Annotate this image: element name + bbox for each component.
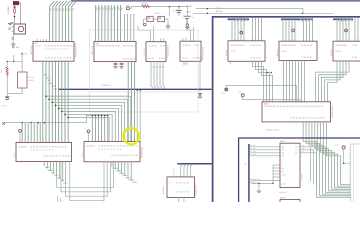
svg-text:RESET A1: RESET A1 [252, 178, 260, 181]
ground loop [5, 94, 9, 100]
svg-text:70: 70 [49, 149, 51, 152]
wire IC9 outputs to bottom edge [58, 196, 104, 202]
IC IC8 (74LS393 counter) [167, 174, 195, 202]
ground IC11 [257, 191, 287, 194]
wire stubs IC9 bottom with net labels [44, 162, 68, 185]
wire fan bus B2 to IC7 top with hop arcs and terminal circle [337, 18, 358, 42]
wire R1 to crystal node [150, 6, 188, 8]
resistor R3 (vertical box) [14, 5, 16, 23]
svg-text:2: 2 [266, 57, 269, 58]
svg-text:10k: 10k [0, 70, 3, 73]
IC IC9 (EPROM 2716) [16, 140, 72, 166]
svg-text:IOW: IOW [54, 174, 58, 177]
label IC6 right [318, 57, 321, 58]
svg-text:Q5: Q5 [302, 144, 304, 147]
terminal circle U1 out b [167, 25, 170, 28]
svg-text:PROZESSOR 1: PROZESSOR 1 [331, 105, 334, 118]
frame module boundary (gray) [90, 30, 199, 112]
svg-text:RESET: RESET [186, 5, 193, 8]
svg-text:50: 50 [51, 48, 53, 51]
label CPU caption [266, 129, 281, 132]
bus B5 (vertical bus in frame) [248, 144, 250, 202]
svg-text:20: 20 [98, 148, 100, 151]
label IC11 right [301, 173, 304, 182]
label gate IC (OENE) [155, 12, 161, 15]
label IC1 right [75, 43, 78, 57]
wire U-nest IC9 to IC10 [57, 162, 114, 201]
svg-text:22p: 22p [191, 16, 194, 19]
bus B2 tap bar above IC7 [333, 18, 353, 20]
wire IC4 top stubs [183, 38, 186, 41]
wire stubs IC10 bottom with net labels [112, 162, 138, 184]
label left edge TASTE [1, 105, 7, 108]
svg-text:20: 20 [45, 48, 47, 51]
capacitor C3 below IC2 with ground [113, 62, 117, 68]
IC IC5 (RAM 4116) [228, 38, 265, 65]
svg-text:40: 40 [54, 48, 56, 51]
wire fan IC3 bottom to bus B3 [151, 62, 166, 89]
svg-text:80: 80 [120, 148, 122, 151]
label bus B2 net names [216, 7, 223, 13]
svg-text:74HC4040: 74HC4040 [279, 191, 287, 194]
svg-text:2716: 2716 [81, 153, 84, 157]
svg-text:IC3 7490: IC3 7490 [143, 49, 146, 56]
bus B1 (top horizontal data bus) [71, 0, 360, 2]
svg-text:74LS157N: 74LS157N [91, 45, 94, 55]
wire drops left rail to IC9 top [22, 123, 40, 143]
wire IC2 pins down to IC10 [128, 62, 134, 142]
junction node power [14, 16, 16, 18]
label IC1 left [30, 45, 33, 55]
label IC2 left [91, 45, 94, 55]
label bus B3 [101, 84, 112, 87]
wire nest IC7 bottom to CPU top [316, 61, 350, 102]
IC IC2 (74LS374 register) [94, 39, 137, 65]
svg-text:50: 50 [36, 149, 38, 152]
wire fan IC2 top with net labels [95, 5, 134, 42]
label IC4 right [202, 46, 205, 60]
svg-text:B2: B2 [245, 163, 247, 166]
terminal circle X (NC) mid [222, 85, 297, 101]
connector SV1 (gray) [351, 144, 360, 203]
svg-text:30: 30 [57, 48, 59, 51]
bus B2 (vertical bus with top corner) [213, 17, 360, 202]
svg-text:Q0: Q0 [282, 146, 285, 149]
terminal circle VCC mid [239, 91, 301, 102]
svg-text:74LS373N: 74LS373N [30, 45, 33, 55]
svg-text:SYNBUS B: SYNBUS B [101, 84, 112, 87]
svg-text:IO3: IO3 [253, 153, 256, 156]
label SP1 x mark [11, 37, 14, 40]
svg-text:80: 80 [66, 48, 68, 51]
svg-text:B1: B1 [154, 66, 157, 68]
svg-text:Q6: Q6 [302, 147, 304, 150]
svg-text:9: 9 [282, 162, 283, 165]
svg-text:20: 20 [30, 149, 32, 152]
svg-text:70: 70 [63, 48, 65, 51]
svg-text:60: 60 [46, 149, 48, 152]
IC IC7 (RAM 4116) [333, 39, 360, 61]
svg-text:Q2: Q2 [282, 152, 285, 155]
capacitor C4 below IC2 with ground [119, 62, 123, 68]
wire fan IC1 top to bus B1 with diagonal entries [49, 1, 77, 41]
wire to ground IC11 [258, 183, 259, 191]
wire fan bus B2 to IC6 top with hop arcs and terminal circle [283, 18, 313, 42]
IC IC12 (74HC4040 lower, clipped) [280, 200, 300, 208]
wire osc to IC4 [187, 19, 194, 41]
label IC3 right [167, 44, 170, 58]
capacitor C1 [172, 10, 182, 15]
label RESET TAKT [186, 5, 193, 13]
svg-text:PROZESSOR: PROZESSOR [195, 184, 198, 196]
svg-text:Q1: Q1 [282, 149, 285, 152]
svg-text:74LS393N: 74LS393N [162, 186, 165, 195]
capacitor C2 crystal [179, 7, 194, 20]
terminal circle IC9 enable [16, 127, 21, 143]
wire inputs IC11 lower left [245, 163, 281, 185]
svg-text:74HC4040: 74HC4040 [301, 173, 304, 182]
svg-text:A[0..15]: A[0..15] [216, 10, 223, 13]
label IC3 left [143, 49, 146, 56]
IC IC10 (EPROM 2716) [84, 139, 140, 166]
label IC6 left [276, 49, 279, 56]
svg-text:MK4116: MK4116 [276, 49, 279, 56]
svg-text:A1: A1 [295, 149, 297, 152]
wire net RESET horizontal [196, 8, 303, 10]
svg-text:B0: B0 [151, 66, 154, 68]
svg-text:OUT1: OUT1 [280, 140, 285, 143]
svg-text:30: 30 [42, 149, 44, 152]
IC IC11 (74HC4040 counter) [280, 143, 300, 187]
wire staircase CPU bottom to connector SV1 [303, 122, 350, 197]
wire fan IC6 bottom to CPU top [284, 61, 305, 102]
svg-text:80: 80 [101, 148, 103, 151]
ground power left [8, 23, 15, 25]
wire IC4 bottom stubs [184, 61, 187, 65]
svg-text:80: 80 [33, 149, 35, 152]
svg-text:60: 60 [60, 48, 62, 51]
svg-text:60: 60 [114, 148, 116, 151]
relay K1 box [18, 72, 36, 88]
wire loop stub up [13, 55, 15, 62]
wire rail VCC to IC10 top with junctions [48, 115, 109, 142]
wire power right branch [19, 3, 21, 24]
svg-text:IOR: IOR [51, 171, 55, 174]
IC CPU U10 (microprocessor) [262, 99, 330, 126]
svg-text:50: 50 [104, 148, 106, 151]
label IC7 left [330, 49, 333, 56]
svg-text:PROZESSOR B: PROZESSOR B [167, 44, 170, 58]
svg-text:MK4116: MK4116 [225, 49, 228, 56]
gate U1A [147, 16, 153, 21]
ground SP1 [11, 44, 19, 49]
svg-text:MK4116: MK4116 [330, 49, 333, 56]
wire IC11 outputs staircase to connector [300, 144, 317, 187]
label IC10 right [141, 146, 144, 158]
svg-text:TASTE: TASTE [1, 105, 7, 108]
VCC arrow left loop [21, 52, 28, 55]
labels IC1 bottom nets [43, 74, 58, 91]
resistor R1 [142, 2, 150, 7]
connector SV1 pin stubs [349, 147, 351, 198]
IC IC4 [180, 41, 201, 61]
label IC5 right [266, 57, 269, 58]
gate U1B [158, 16, 165, 21]
wire fan bus B2 to IC5 top with hop arcs and terminal circle [232, 18, 262, 41]
wire SP1 down [12, 34, 14, 43]
svg-text:B3: B3 [160, 66, 163, 68]
wire IC3 top stubs [161, 38, 164, 42]
wire RESET drop right [302, 9, 304, 14]
svg-text:POWER: POWER [7, 6, 10, 14]
svg-text:TAKT A2: TAKT A2 [252, 181, 259, 184]
svg-text:CLK OUT: CLK OUT [173, 169, 176, 176]
ground crystal cap [185, 19, 189, 29]
svg-text:RELAIS: RELAIS [28, 76, 35, 79]
VCC symbol X left rail [2, 122, 5, 125]
wire net TAKT horizontal [193, 13, 333, 15]
wire fan IC1 bottom to IC9 top [43, 61, 68, 142]
svg-text:PROZESSOR: PROZESSOR [141, 146, 144, 158]
wire inputs to IC11 left [250, 144, 280, 156]
wire gate chain [144, 7, 170, 26]
wire loop top [7, 55, 23, 72]
IC IC6 (RAM 4116) [279, 39, 317, 65]
label IC8 top wires [173, 169, 176, 176]
svg-text:B4: B4 [163, 66, 166, 68]
svg-text:B2: B2 [157, 66, 160, 68]
svg-text:80: 80 [52, 149, 54, 152]
wire bus B3 drops to IC10 [137, 90, 141, 142]
svg-text:2: 2 [318, 57, 321, 58]
label IC8 left [162, 186, 165, 195]
svg-text:R1: R1 [282, 168, 284, 171]
wire IC8 bottom stubs [179, 198, 185, 203]
svg-text:OUT2: OUT2 [280, 197, 285, 200]
label J1 vertical [7, 6, 10, 14]
label IC11 top [280, 140, 285, 143]
connector J1 power (filled) [13, 2, 18, 5]
label IC9 left [13, 153, 16, 157]
wire osc to IC3 [138, 26, 154, 42]
diode LED1 [14, 6, 16, 8]
svg-text:PROZESSOR B: PROZESSOR B [202, 46, 205, 60]
svg-text:30: 30 [110, 148, 112, 151]
wire nest IC5 bottom to CPU top [231, 61, 273, 102]
bus B2 tap bar above IC5 [228, 18, 250, 20]
svg-text:RDY: RDY [63, 182, 68, 185]
svg-text:40: 40 [107, 148, 109, 151]
speaker SP1 box [14, 24, 25, 34]
svg-text:IO0: IO0 [253, 144, 256, 147]
svg-text:CAS1: CAS1 [132, 181, 138, 184]
label IC10 left [81, 153, 84, 157]
frame module 2 (navy) [239, 138, 360, 208]
bus B3 (horizontal address bus) [58, 88, 212, 90]
IC IC1 (74LS373 latch, top-left) [33, 39, 76, 65]
svg-text:IO1: IO1 [253, 147, 256, 150]
svg-text:CLR: CLR [282, 174, 286, 177]
svg-text:PROZESSOR B: PROZESSOR B [75, 43, 78, 57]
svg-text:BZ1: BZ1 [16, 46, 19, 49]
wire drops bus B4 to IC8 [181, 165, 193, 177]
terminal VCC1 circle [125, 4, 129, 10]
label CPU right [331, 105, 334, 118]
wire stubs IC1 top-left pins [37, 39, 47, 41]
label IC8 right [195, 184, 198, 196]
svg-text:80: 80 [48, 48, 50, 51]
svg-text:R1 1k: R1 1k [142, 2, 147, 5]
svg-text:Q7: Q7 [302, 150, 304, 153]
terminal circle VCC frame [335, 143, 351, 164]
terminal circle IC10 enable [85, 127, 90, 141]
resistor R2 zigzag vertical [0, 62, 22, 94]
wire IC4 pin to ground GND4 [198, 61, 202, 98]
svg-text:2716: 2716 [13, 153, 16, 157]
svg-text:PROZESSOR 1: PROZESSOR 1 [266, 129, 281, 132]
IC IC3 (oscillator divider) [146, 42, 167, 62]
svg-text:40: 40 [39, 149, 41, 152]
wire VCC1 to R1 [130, 7, 142, 9]
highlight yellow ellipse annotation [124, 128, 139, 144]
svg-text:70: 70 [117, 148, 119, 151]
svg-text:IO2: IO2 [253, 150, 256, 153]
wire left rail horizontal [5, 122, 48, 124]
svg-text:C1: C1 [172, 10, 174, 13]
speaker SP1 pins [8, 27, 14, 32]
bus B2 tap bar above IC6 [281, 18, 313, 20]
svg-text:GENE: GENE [155, 12, 161, 15]
wire nest IC1 outputs to IC10 top [45, 95, 131, 141]
svg-text:Q3: Q3 [282, 155, 285, 158]
bus B4 stub to IC8 [177, 163, 212, 165]
label IC5 left [225, 49, 228, 56]
svg-text:NE555: NE555 [28, 79, 33, 82]
svg-text:A2: A2 [295, 152, 297, 155]
svg-text:A0: A0 [295, 146, 297, 149]
label IC12 top [280, 197, 285, 200]
terminal circle U1 out a [144, 23, 147, 26]
